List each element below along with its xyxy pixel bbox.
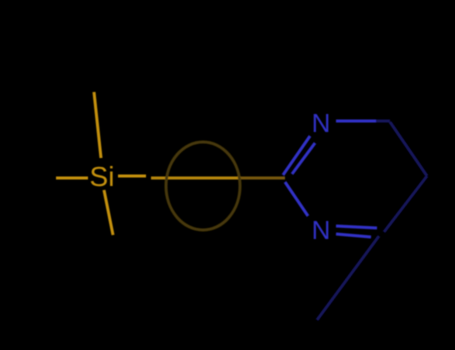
bond Si to alkyne carbon bbox=[118, 175, 146, 178]
bond N3=C4 upper line bbox=[336, 226, 377, 228]
svg-text:Si: Si bbox=[90, 161, 115, 192]
bond Si methyl left bbox=[56, 177, 88, 180]
bond C6-C5 dark bbox=[390, 122, 427, 176]
bond N1-C6 bright half bbox=[336, 120, 376, 123]
bond C6 dark stub bbox=[376, 120, 390, 123]
svg-text:N: N bbox=[312, 215, 331, 245]
bond Si methyl up bbox=[94, 92, 101, 158]
bond C2=N1 outer line bbox=[283, 136, 310, 175]
bond C2=N1 inner line bbox=[292, 143, 315, 174]
alkyne to ring C-C bond dark part bbox=[241, 177, 285, 180]
bond C2-N3 bbox=[285, 182, 308, 216]
bond C5-C4 dark bbox=[384, 176, 427, 232]
lens ellipse around alkyne bbox=[166, 142, 240, 230]
alkyne chain bond bright part bbox=[151, 177, 241, 180]
bond C4 substituent diagonal dark bbox=[317, 236, 379, 320]
svg-text:N: N bbox=[312, 108, 331, 138]
bond Si methyl down bbox=[104, 190, 113, 235]
bond N3=C4 lower line bbox=[336, 234, 371, 237]
